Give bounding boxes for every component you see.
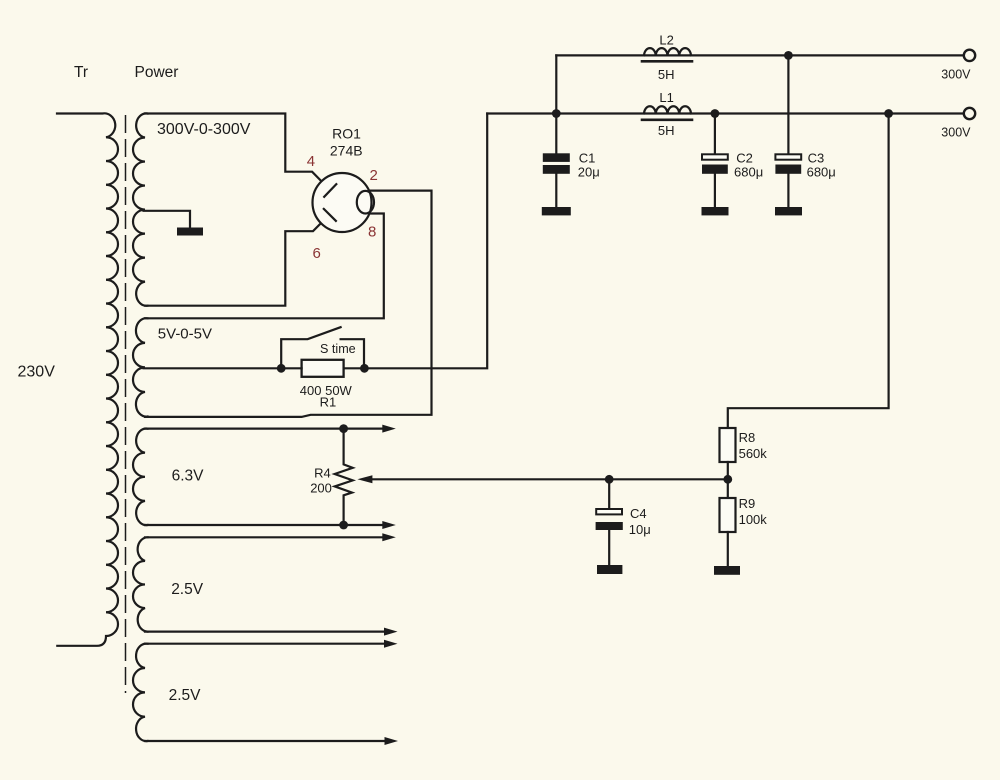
switch S time bbox=[281, 327, 364, 368]
svg-text:C3: C3 bbox=[808, 151, 825, 166]
svg-text:300V: 300V bbox=[941, 68, 971, 82]
svg-text:C4: C4 bbox=[630, 506, 647, 521]
svg-text:Power: Power bbox=[135, 64, 179, 81]
wire 5V center tap to R1 bbox=[144, 367, 282, 369]
wire rail to R8 bbox=[728, 114, 889, 429]
ground R9 bbox=[714, 566, 740, 575]
node C3 junction (upper rail) bbox=[784, 51, 793, 60]
svg-text:5V-0-5V: 5V-0-5V bbox=[158, 326, 212, 343]
node C1 junction bbox=[552, 109, 561, 118]
wire 6.3V bottom lead with arrow bbox=[145, 524, 385, 526]
transformer secondary winding 2.5V (second) bbox=[133, 644, 148, 741]
svg-text:Tr: Tr bbox=[74, 64, 88, 81]
wire R9 to ground bbox=[727, 532, 729, 566]
svg-text:4: 4 bbox=[307, 153, 315, 170]
svg-text:L1: L1 bbox=[659, 90, 673, 105]
wire 300V winding bottom lead to tube pin6 bbox=[145, 214, 330, 306]
svg-text:6: 6 bbox=[313, 245, 321, 262]
capacitor C3 bbox=[787, 55, 789, 207]
inductor L1 bbox=[644, 106, 691, 113]
transformer secondary winding 5V-0-5V bbox=[133, 318, 148, 416]
capacitor C2 bbox=[714, 114, 716, 208]
ground C2 bbox=[702, 207, 729, 215]
svg-text:S time: S time bbox=[320, 342, 356, 356]
tube anode (pin 4) bbox=[324, 184, 336, 197]
transformer Tr primary winding with 230V leads bbox=[57, 113, 118, 645]
svg-text:2.5V: 2.5V bbox=[169, 687, 202, 704]
node divider junction bbox=[723, 475, 732, 484]
ground C1 bbox=[542, 207, 571, 215]
svg-text:8: 8 bbox=[368, 224, 376, 241]
terminal 300V lower bbox=[964, 108, 975, 119]
R4 wiper arrow and wire bbox=[369, 478, 728, 480]
svg-text:20μ: 20μ bbox=[578, 165, 600, 180]
potentiometer R4 bbox=[335, 429, 353, 525]
node C4 junction bbox=[605, 475, 614, 484]
transformer secondary winding 2.5V (first) bbox=[133, 537, 148, 631]
wire 6.3V top lead with arrow bbox=[145, 428, 385, 430]
svg-text:2.5V: 2.5V bbox=[171, 581, 204, 598]
node 6.3V bottom bbox=[339, 521, 348, 530]
svg-text:5H: 5H bbox=[658, 123, 675, 138]
resistor R1 bbox=[302, 360, 344, 377]
ground C4 bbox=[597, 565, 622, 574]
wire 2.5V#2 bottom lead with arrow bbox=[145, 740, 388, 742]
svg-text:R1: R1 bbox=[320, 394, 337, 409]
wire upper 300V rail bbox=[556, 54, 963, 56]
svg-text:680μ: 680μ bbox=[734, 165, 763, 180]
svg-text:200: 200 bbox=[310, 480, 332, 495]
ground C3 bbox=[775, 207, 802, 215]
wire 300V winding center tap bbox=[144, 211, 191, 227]
svg-text:300V: 300V bbox=[941, 126, 971, 140]
svg-text:C2: C2 bbox=[736, 151, 753, 166]
transformer core (dashed) bbox=[125, 115, 127, 693]
svg-text:5H: 5H bbox=[658, 67, 675, 82]
transformer secondary winding 300V-0-300V bbox=[133, 113, 148, 305]
wire 2.5V#1 bottom lead with arrow bbox=[145, 630, 387, 632]
wire 2.5V#1 top lead with arrow bbox=[145, 536, 385, 538]
resistor R8 bbox=[720, 428, 736, 462]
transformer secondary winding 6.3V bbox=[133, 429, 148, 526]
tube anode (pin 6) bbox=[324, 209, 336, 221]
inductor L2 bbox=[644, 48, 691, 55]
terminal 300V upper bbox=[964, 50, 975, 61]
capacitor C4 bbox=[608, 479, 610, 565]
svg-text:R8: R8 bbox=[739, 430, 756, 445]
node R1 left bbox=[277, 364, 286, 373]
ground (center tap) bbox=[177, 228, 203, 236]
wire 5V top lead to tube pin8 bbox=[145, 214, 384, 319]
svg-text:274B: 274B bbox=[330, 143, 363, 159]
wire 5V bottom lead to tube pin2 bbox=[145, 191, 432, 417]
svg-text:10μ: 10μ bbox=[629, 522, 651, 537]
resistor R9 bbox=[720, 498, 736, 532]
tube filament loop bbox=[357, 191, 374, 214]
svg-text:230V: 230V bbox=[18, 363, 56, 380]
node 6.3V top bbox=[339, 424, 348, 433]
svg-text:560k: 560k bbox=[739, 446, 768, 461]
svg-text:C1: C1 bbox=[579, 151, 596, 166]
svg-text:RO1: RO1 bbox=[332, 125, 361, 141]
wire lower 300V rail bbox=[487, 112, 963, 114]
wire R8 to junction bbox=[727, 462, 729, 498]
svg-text:2: 2 bbox=[370, 167, 378, 184]
wire riser to upper rail bbox=[555, 55, 557, 113]
svg-text:6.3V: 6.3V bbox=[172, 467, 205, 484]
wire 2.5V#2 top lead with arrow bbox=[145, 643, 387, 645]
svg-text:680μ: 680μ bbox=[807, 165, 836, 180]
wire 300V winding top lead to tube pin4 bbox=[145, 114, 330, 191]
node R1 right bbox=[360, 364, 369, 373]
svg-text:300V-0-300V: 300V-0-300V bbox=[157, 121, 251, 138]
rectifier tube RO1 274B envelope bbox=[313, 173, 372, 232]
svg-text:L2: L2 bbox=[659, 33, 673, 48]
wire R1 to filter input bbox=[281, 114, 487, 369]
svg-text:100k: 100k bbox=[739, 512, 768, 527]
node R8 feed on lower rail bbox=[884, 109, 893, 118]
svg-text:R4: R4 bbox=[314, 466, 331, 481]
svg-text:R9: R9 bbox=[739, 496, 756, 511]
capacitor C1 bbox=[555, 114, 557, 208]
node C2 junction bbox=[711, 109, 720, 118]
